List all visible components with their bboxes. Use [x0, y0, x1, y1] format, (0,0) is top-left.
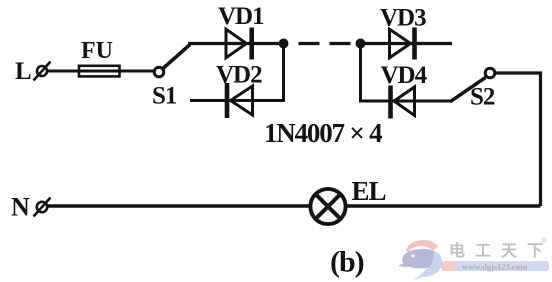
svg-text:(b): (b) — [330, 246, 364, 279]
svg-text:下: 下 — [527, 243, 543, 260]
watermark text dian gong tian xia — [449, 236, 547, 260]
svg-text:1N4007 × 4: 1N4007 × 4 — [264, 118, 382, 148]
svg-text:S2: S2 — [470, 84, 495, 111]
svg-text:www.dgjs123.com: www.dgjs123.com — [462, 262, 527, 272]
wire node B to VD3 free end — [361, 42, 453, 45]
node A (junction dot) — [279, 39, 289, 49]
fuse FU — [79, 66, 120, 77]
svg-text:EL: EL — [352, 176, 386, 206]
svg-text:天: 天 — [501, 243, 518, 260]
svg-text:VD2: VD2 — [216, 62, 262, 89]
svg-text:L: L — [15, 58, 32, 85]
wire neutral line — [48, 204, 541, 207]
wire top left segment (S1 to node A) — [188, 42, 284, 45]
node B (junction dot) — [356, 39, 366, 49]
watermark url bar — [441, 261, 549, 272]
diode VD3 — [390, 28, 415, 60]
wire node B down to VD4 line — [361, 44, 452, 102]
svg-text:VD3: VD3 — [380, 4, 426, 31]
svg-text:工: 工 — [475, 243, 491, 260]
svg-text:电: 电 — [449, 241, 465, 260]
svg-text:FU: FU — [81, 38, 113, 64]
wire S2 to right edge and down — [495, 73, 540, 206]
wire node A down to VD2 line — [190, 44, 284, 101]
svg-text:VD4: VD4 — [381, 62, 428, 89]
switch S2 — [450, 68, 495, 102]
svg-text:VD1: VD1 — [218, 3, 264, 30]
node L (phase terminal) — [34, 62, 51, 81]
lamp EL — [310, 189, 345, 224]
switch S1 — [154, 45, 190, 77]
svg-text:S1: S1 — [152, 83, 177, 110]
diode VD4 — [391, 86, 415, 119]
diode VD1 — [226, 28, 252, 60]
node N (neutral terminal) — [34, 198, 51, 217]
svg-text:®: ® — [541, 236, 547, 245]
wire dashed link between node A and node B — [293, 42, 355, 45]
svg-text:N: N — [11, 193, 30, 222]
watermark logo — [398, 240, 442, 281]
diode VD2 — [227, 83, 253, 118]
wire L terminal to S1 through fuse — [47, 70, 155, 73]
